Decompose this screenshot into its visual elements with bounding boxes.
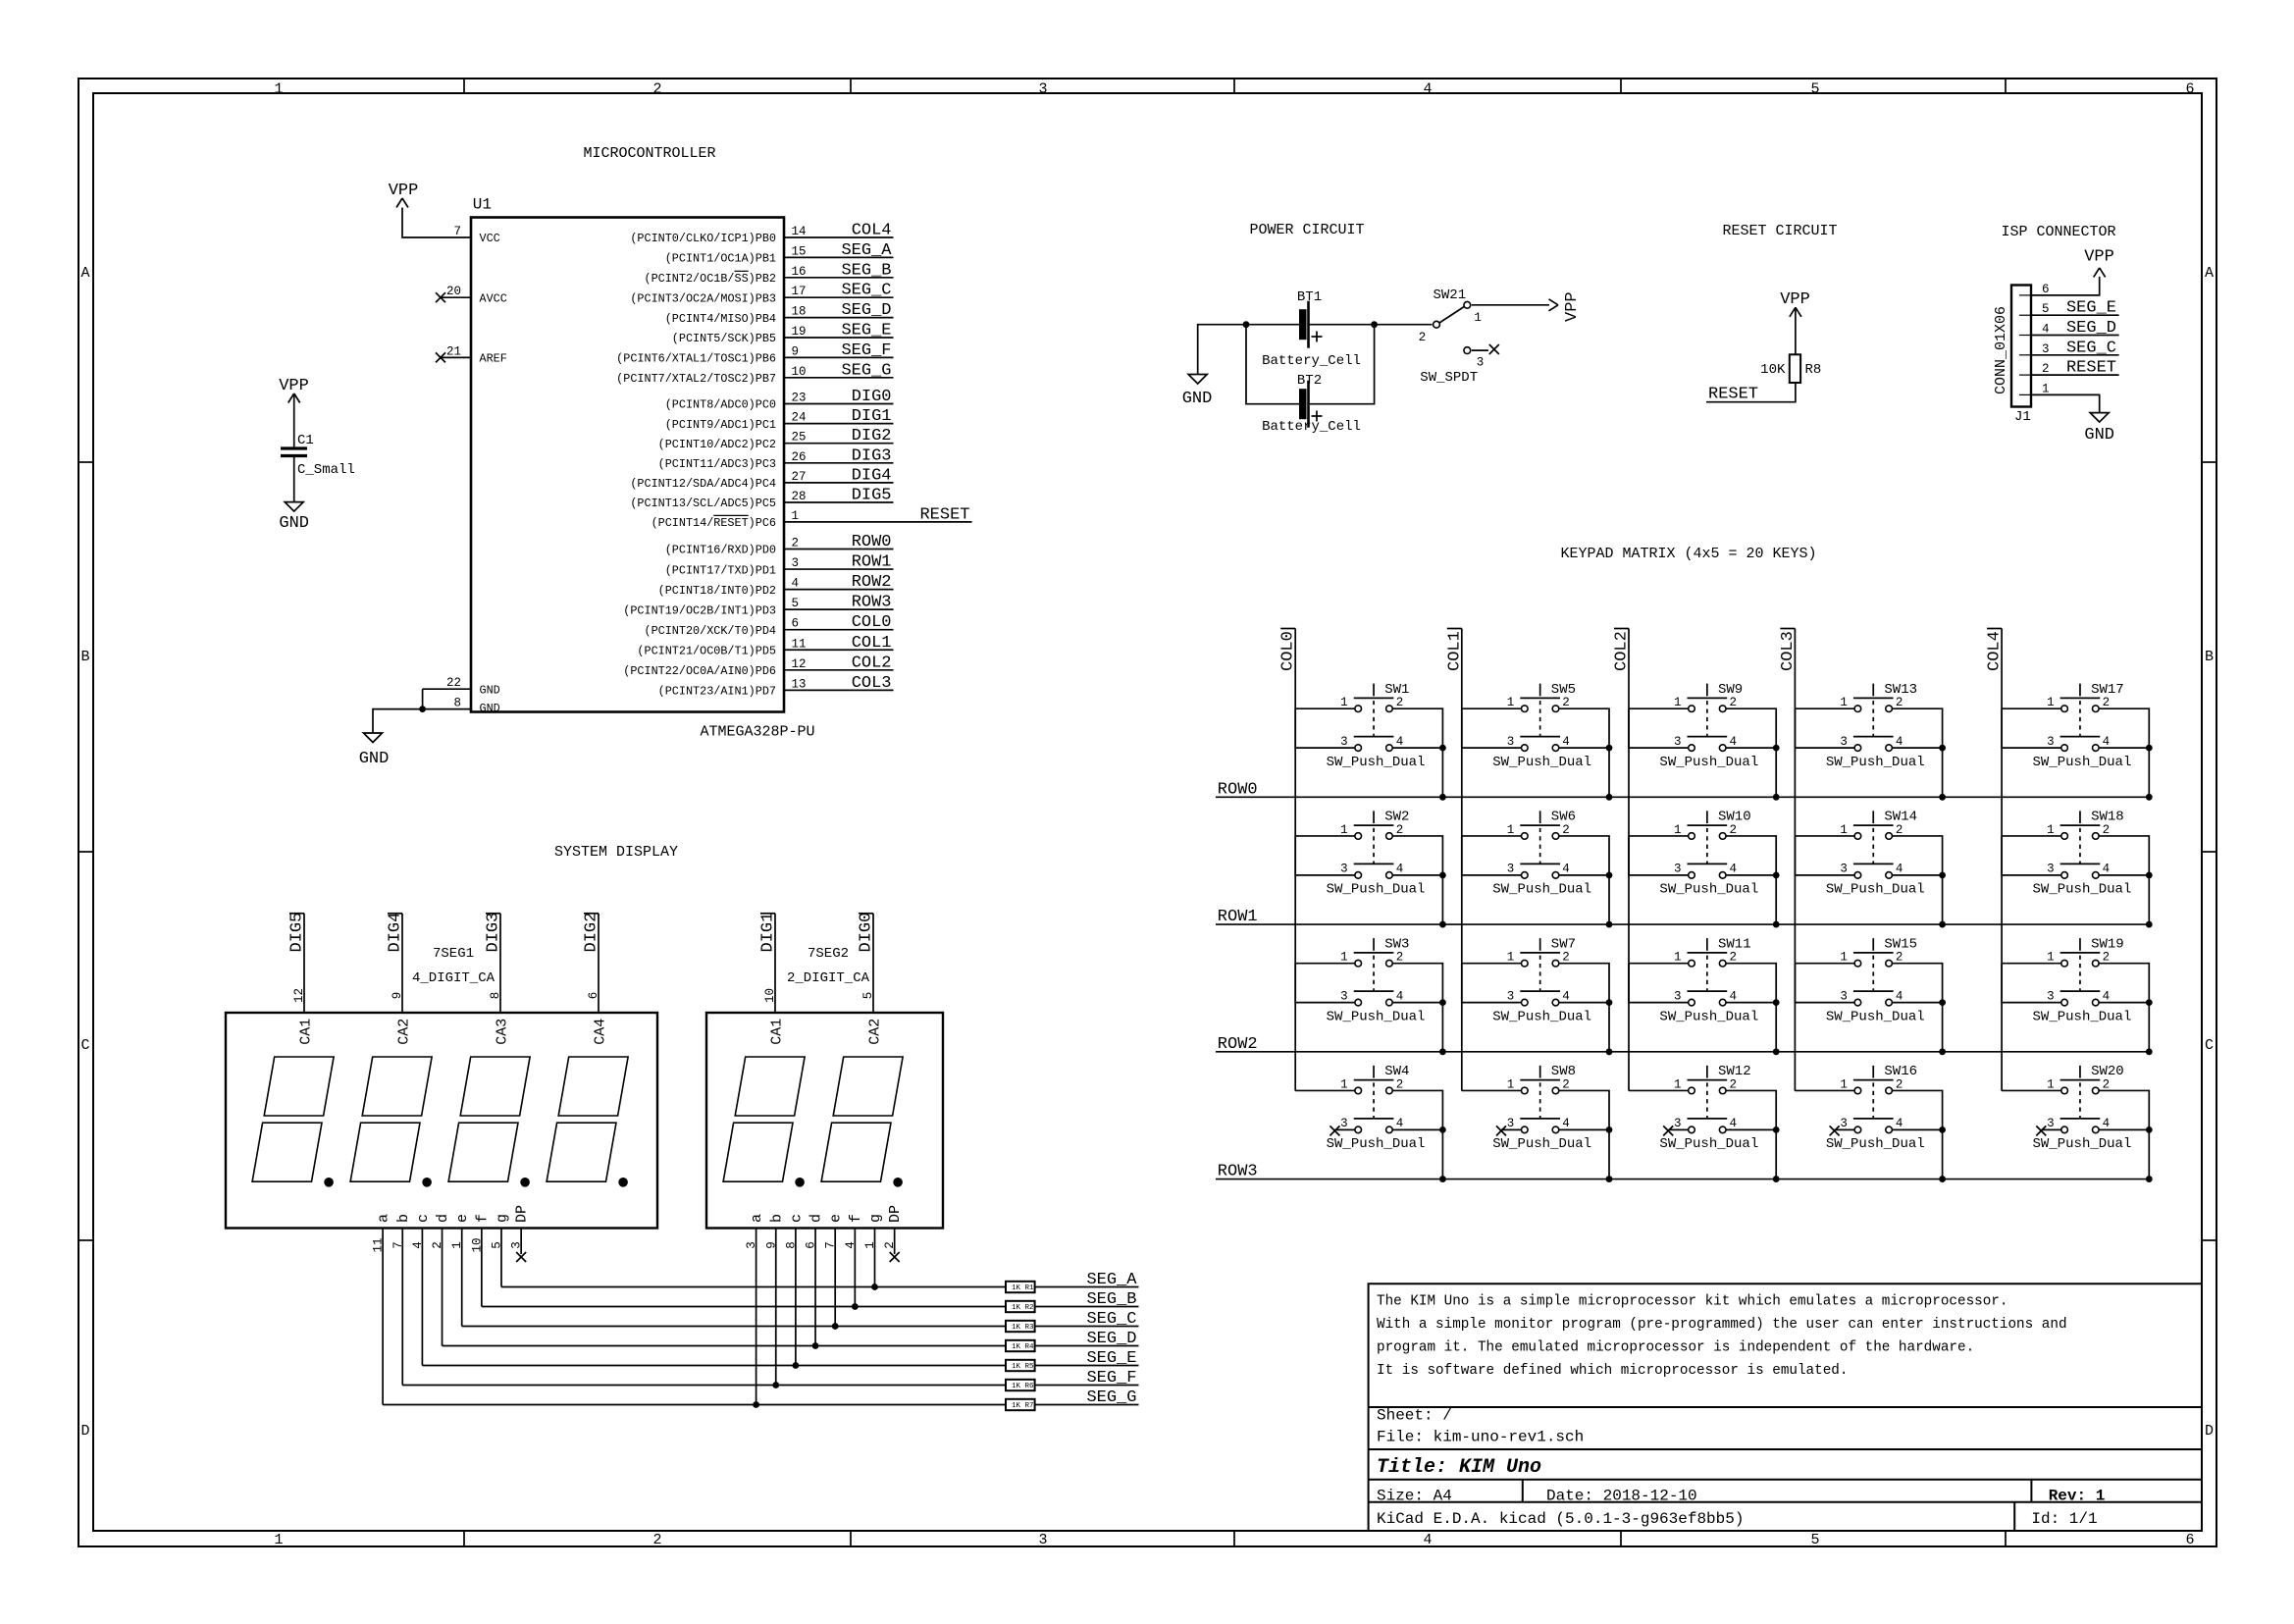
svg-text:3: 3 <box>1840 735 1848 749</box>
wire C1 to GND <box>293 456 295 502</box>
wire 7SEG1 pin b to SEG bus row <box>401 1229 403 1386</box>
svg-text:4: 4 <box>2103 989 2111 1003</box>
svg-text:b: b <box>768 1214 785 1223</box>
junction SW11 at ROW2 <box>1773 1048 1780 1055</box>
svg-text:1: 1 <box>1840 823 1848 837</box>
junction SW16 pin 4 <box>1939 1126 1946 1133</box>
svg-text:1: 1 <box>2047 696 2055 709</box>
7SEG1 digit 3 segments <box>460 1057 530 1116</box>
svg-text:(PCINT12/SDA/ADC4)PC4: (PCINT12/SDA/ADC4)PC4 <box>630 477 776 491</box>
svg-text:9: 9 <box>792 344 800 358</box>
junction 7SEG2 pin a <box>753 1401 759 1408</box>
wire SW19 pin 4 to junction <box>2099 1002 2149 1004</box>
svg-text:SW_Push_Dual: SW_Push_Dual <box>1492 1009 1591 1024</box>
wire COL1 to SW7 pin 1 <box>1462 963 1522 965</box>
svg-text:4: 4 <box>1730 989 1738 1003</box>
svg-text:3: 3 <box>1340 1117 1348 1130</box>
ground GND below U1 <box>364 733 383 743</box>
wire SW5 pin 2 down to row <box>1559 708 1609 797</box>
junction SW3 pin 4 <box>1439 999 1446 1006</box>
svg-text:2: 2 <box>1562 1077 1570 1091</box>
no-connect cross SW12 pin 3 <box>1668 1128 1689 1130</box>
pin 20 AVCC of U1 with no-connect cross <box>441 296 471 298</box>
frame row ticks right <box>2202 461 2216 463</box>
pin 19 (PB5) of U1 with wire and net label SEG_E <box>784 337 894 339</box>
wire SW12 pin 4 to junction <box>1726 1128 1776 1130</box>
svg-text:3: 3 <box>1507 989 1515 1003</box>
wire R8 to RESET net <box>1706 383 1796 402</box>
svg-text:ROW3: ROW3 <box>852 594 892 612</box>
svg-text:10K: 10K <box>1760 362 1786 378</box>
svg-text:SEG_E: SEG_E <box>841 322 891 341</box>
wire COL0 to SW4 pin 1 <box>1295 1089 1355 1091</box>
svg-text:2: 2 <box>1730 696 1738 709</box>
svg-text:(PCINT6/XTAL1/TOSC1)PB6: (PCINT6/XTAL1/TOSC1)PB6 <box>616 352 776 366</box>
power symbol VPP (reset circuit) <box>1790 307 1796 317</box>
ground GND (C1 branch) <box>285 502 303 511</box>
svg-text:CA3: CA3 <box>495 1019 511 1045</box>
power symbol VPP above U1 <box>396 198 402 208</box>
svg-text:2: 2 <box>1896 1077 1903 1091</box>
svg-text:SW18: SW18 <box>2091 810 2124 825</box>
pin 4 of J1 <box>2019 335 2031 337</box>
wire 7SEG2 pin g to SEG bus row <box>874 1228 876 1287</box>
wire SW10 pin 4 to junction <box>1726 874 1776 876</box>
svg-text:2: 2 <box>1896 696 1903 709</box>
svg-text:1: 1 <box>792 509 800 523</box>
svg-text:It is software defined which m: It is software defined which microproces… <box>1377 1363 1848 1379</box>
svg-text:CONN_01X06: CONN_01X06 <box>1993 306 2009 394</box>
svg-text:SW_Push_Dual: SW_Push_Dual <box>1327 755 1426 770</box>
svg-text:4: 4 <box>1896 1117 1903 1130</box>
junction 7SEG2 pin c <box>793 1362 800 1369</box>
svg-text:1: 1 <box>1507 1077 1515 1091</box>
wire COL0 to SW3 pin 3 <box>1295 964 1355 1003</box>
svg-text:DIG5: DIG5 <box>852 487 892 505</box>
svg-text:SW20: SW20 <box>2091 1064 2124 1079</box>
junction SW8 at ROW3 <box>1606 1176 1613 1182</box>
svg-text:12: 12 <box>292 988 306 1003</box>
svg-text:1: 1 <box>1674 951 1682 965</box>
svg-text:15: 15 <box>792 244 807 258</box>
pin 5 of J1 <box>2019 314 2031 316</box>
svg-text:The KIM Uno is a simple microp: The KIM Uno is a simple microprocessor k… <box>1377 1294 2007 1310</box>
junction SW5 at ROW0 <box>1606 794 1613 801</box>
wire BT2 left branch <box>1246 325 1299 404</box>
svg-text:SW_Push_Dual: SW_Push_Dual <box>1492 882 1591 898</box>
svg-text:g: g <box>495 1214 511 1223</box>
junction SW17 pin 4 <box>2146 745 2153 752</box>
svg-text:SEG_B: SEG_B <box>841 261 891 280</box>
svg-text:COL0: COL0 <box>852 613 892 632</box>
wire 7SEG2 pin f to SEG bus row <box>854 1228 856 1307</box>
wire SW6 pin 2 down to row <box>1559 836 1609 924</box>
svg-text:1: 1 <box>274 1532 283 1548</box>
svg-text:2: 2 <box>1396 951 1404 965</box>
svg-text:DIG3: DIG3 <box>485 913 503 953</box>
svg-text:DIG3: DIG3 <box>852 446 892 465</box>
wire COL1 to SW5 pin 1 <box>1462 707 1522 709</box>
svg-text:CA4: CA4 <box>593 1019 609 1045</box>
svg-text:g: g <box>867 1214 884 1223</box>
svg-text:5: 5 <box>861 992 875 1000</box>
capacitor C1 <box>281 446 307 449</box>
wire and net label SEG_D (J1 pin 4) <box>2031 335 2119 337</box>
power symbol VPP (power circuit, rotated right) <box>1549 299 1559 305</box>
svg-text:1: 1 <box>1840 1077 1848 1091</box>
svg-text:2: 2 <box>1562 951 1570 965</box>
wire COL3 to SW15 pin 3 <box>1795 964 1854 1003</box>
svg-text:GND: GND <box>480 702 500 715</box>
svg-text:10: 10 <box>792 365 807 379</box>
svg-text:Rev: 1: Rev: 1 <box>2049 1488 2106 1505</box>
svg-text:3: 3 <box>1507 735 1515 749</box>
svg-text:SW11: SW11 <box>1718 936 1751 952</box>
svg-text:SW16: SW16 <box>1884 1064 1917 1079</box>
svg-text:(PCINT4/MISO)PB4: (PCINT4/MISO)PB4 <box>665 312 776 326</box>
svg-text:SW_SPDT: SW_SPDT <box>1420 370 1478 386</box>
push-button switch SW5 SW_Push_Dual <box>1492 682 1591 770</box>
svg-text:5: 5 <box>2042 302 2050 316</box>
svg-text:Battery_Cell: Battery_Cell <box>1262 353 1361 369</box>
svg-text:SW7: SW7 <box>1551 936 1576 952</box>
wire SW11 pin 2 down to row <box>1726 964 1776 1052</box>
frame column ticks top <box>463 79 465 93</box>
wire SEG bus row SEG_D left of resistor <box>443 1345 1006 1347</box>
wire and net label SEG_B (resistor output) <box>1035 1306 1139 1308</box>
pin 27 (PC4) of U1 with wire and net label DIG4 <box>784 482 894 484</box>
microcontroller U1 ATMEGA328P-PU body <box>471 218 784 712</box>
svg-text:SEG_B: SEG_B <box>1086 1290 1136 1309</box>
wire SW3 pin 2 down to row <box>1392 964 1442 1052</box>
svg-text:e: e <box>828 1214 845 1223</box>
svg-text:2: 2 <box>2103 696 2111 709</box>
push-button switch SW15 SW_Push_Dual <box>1826 936 1925 1024</box>
power symbol VPP (ISP connector) <box>2094 268 2100 278</box>
wire SW7 pin 4 to junction <box>1559 1002 1609 1004</box>
wire COL0 to SW3 pin 1 <box>1295 963 1355 965</box>
svg-text:1: 1 <box>1840 696 1848 709</box>
wire COL0 to SW1 pin 3 <box>1295 708 1355 748</box>
svg-text:3: 3 <box>2047 989 2055 1003</box>
svg-text:3: 3 <box>1674 863 1682 876</box>
svg-text:GND: GND <box>279 514 309 533</box>
wire DIG net to 7SEG1 CA4 pin <box>598 914 600 1013</box>
wire and net label SEG_C (J1 pin 3) <box>2031 354 2119 356</box>
svg-text:(PCINT0/CLKO/ICP1)PB0: (PCINT0/CLKO/ICP1)PB0 <box>630 232 776 245</box>
svg-text:SW2: SW2 <box>1384 810 1409 825</box>
push-button switch SW16 SW_Push_Dual <box>1826 1064 1925 1152</box>
svg-text:COL1: COL1 <box>852 634 892 653</box>
junction SW16 at ROW3 <box>1939 1176 1946 1182</box>
frame row ticks left <box>78 461 93 463</box>
pin 5 (PD3) of U1 with wire and net label ROW3 <box>784 608 894 610</box>
push-button switch SW14 SW_Push_Dual <box>1826 810 1925 898</box>
svg-text:(PCINT20/XCK/T0)PD4: (PCINT20/XCK/T0)PD4 <box>644 624 776 638</box>
svg-text:4: 4 <box>1730 735 1738 749</box>
junction battery left <box>1243 321 1250 328</box>
svg-text:BT2: BT2 <box>1297 373 1322 389</box>
pin 2 of J1 <box>2019 374 2031 376</box>
wire BT2 right branch <box>1309 325 1375 404</box>
wire COL3 to SW16 pin 1 <box>1795 1089 1854 1091</box>
wire SEG bus row SEG_G left of resistor <box>383 1404 1006 1406</box>
junction 7SEG2 pin b <box>772 1382 779 1388</box>
svg-text:3: 3 <box>1674 989 1682 1003</box>
wire COL3 vertical bus <box>1794 629 1796 1091</box>
svg-text:3: 3 <box>792 556 800 570</box>
svg-text:SW_Push_Dual: SW_Push_Dual <box>2033 755 2132 770</box>
svg-text:SW3: SW3 <box>1384 936 1409 952</box>
pin 12 (PD6) of U1 with wire and net label COL2 <box>784 669 894 671</box>
wire SW6 pin 4 to junction <box>1559 874 1609 876</box>
ground GND (power circuit) <box>1188 375 1207 385</box>
svg-text:DIG5: DIG5 <box>288 913 307 953</box>
wire joining GND pins of U1 <box>422 689 424 708</box>
svg-text:ISP CONNECTOR: ISP CONNECTOR <box>2001 224 2115 240</box>
svg-text:SW_Push_Dual: SW_Push_Dual <box>1826 1136 1925 1152</box>
svg-text:VPP: VPP <box>389 182 419 200</box>
switch SW21 SW_SPDT <box>1434 321 1440 328</box>
svg-text:GND: GND <box>2084 426 2114 445</box>
wire COL3 to SW13 pin 1 <box>1795 707 1854 709</box>
pin 15 (PB1) of U1 with wire and net label SEG_A <box>784 256 894 258</box>
junction SW10 pin 4 <box>1773 871 1780 878</box>
svg-text:2: 2 <box>652 1532 661 1548</box>
svg-text:19: 19 <box>792 325 807 339</box>
svg-text:3: 3 <box>1840 863 1848 876</box>
pin 25 (PC2) of U1 with wire and net label DIG2 <box>784 443 894 445</box>
wire SEG bus row SEG_F left of resistor <box>402 1385 1006 1387</box>
svg-text:Date: 2018-12-10: Date: 2018-12-10 <box>1546 1488 1697 1505</box>
wire SW17 pin 4 to junction <box>2099 747 2149 749</box>
resistor R3 1K <box>1006 1321 1035 1332</box>
svg-text:2: 2 <box>1396 696 1404 709</box>
svg-text:DIG1: DIG1 <box>852 407 892 426</box>
junction SW13 at ROW0 <box>1939 794 1946 801</box>
svg-text:VPP: VPP <box>279 377 309 395</box>
junction SW15 pin 4 <box>1939 999 1946 1006</box>
svg-text:2: 2 <box>1730 823 1738 837</box>
svg-text:5: 5 <box>1810 81 1819 98</box>
svg-text:SEG_D: SEG_D <box>841 301 891 320</box>
wire COL1 to SW5 pin 3 <box>1462 708 1522 748</box>
svg-text:Size: A4: Size: A4 <box>1377 1488 1452 1505</box>
no-connect cross SW16 pin 3 <box>1835 1128 1855 1130</box>
resistor R6 1K <box>1006 1380 1035 1390</box>
svg-text:(PCINT22/OC0A/AIN0)PD6: (PCINT22/OC0A/AIN0)PD6 <box>623 664 776 678</box>
svg-text:1: 1 <box>1674 696 1682 709</box>
title block row separators <box>1369 1406 2202 1408</box>
wire SW8 pin 2 down to row <box>1559 1090 1609 1179</box>
wire SEG bus row SEG_E left of resistor <box>422 1365 1006 1367</box>
junction SW12 pin 4 <box>1773 1126 1780 1133</box>
svg-text:d: d <box>808 1214 825 1223</box>
svg-text:A: A <box>80 265 89 282</box>
wire SW15 pin 4 to junction <box>1892 1002 1942 1004</box>
svg-text:SW_Push_Dual: SW_Push_Dual <box>1659 755 1758 770</box>
svg-text:4: 4 <box>2103 863 2111 876</box>
wire COL0 vertical bus <box>1294 629 1296 1091</box>
svg-text:RESET: RESET <box>919 505 969 524</box>
svg-text:f: f <box>474 1214 491 1223</box>
svg-text:ROW2: ROW2 <box>852 573 892 592</box>
wire DIG net to 7SEG1 CA3 pin <box>499 914 501 1013</box>
svg-text:4: 4 <box>2103 1117 2111 1130</box>
battery BT1 <box>1299 309 1307 340</box>
svg-text:SW_Push_Dual: SW_Push_Dual <box>1492 1136 1591 1152</box>
junction SW14 at ROW1 <box>1939 921 1946 928</box>
svg-text:(PCINT5/SCK)PB5: (PCINT5/SCK)PB5 <box>672 332 776 345</box>
svg-text:SW17: SW17 <box>2091 682 2124 698</box>
wire ROW2 horizontal bus with net label <box>1216 1051 2149 1053</box>
svg-text:4: 4 <box>1423 1532 1432 1548</box>
svg-text:17: 17 <box>792 285 807 298</box>
resistor R7 1K <box>1006 1399 1035 1410</box>
svg-text:SW5: SW5 <box>1551 682 1576 698</box>
wire J1 pin 6 to VPP <box>2031 277 2100 295</box>
svg-text:c: c <box>788 1214 805 1223</box>
wire COL4 to SW18 pin 1 <box>2002 835 2061 837</box>
wire SW13 pin 2 down to row <box>1892 708 1942 797</box>
wire COL4 vertical bus <box>2001 629 2003 1091</box>
push-button switch SW8 SW_Push_Dual <box>1492 1064 1591 1152</box>
svg-text:(PCINT3/OC2A/MOSI)PB3: (PCINT3/OC2A/MOSI)PB3 <box>630 291 776 305</box>
wire and net label RESET (J1 pin 2) <box>2031 374 2119 376</box>
wire and net label SEG_G (resistor output) <box>1035 1404 1139 1406</box>
battery BT2 <box>1299 389 1307 419</box>
wire VPP to R8 <box>1795 307 1797 354</box>
svg-text:4: 4 <box>1730 863 1738 876</box>
svg-text:c: c <box>415 1214 432 1223</box>
pin 14 (PB0) of U1 with wire and net label COL4 <box>784 236 894 238</box>
junction SW13 pin 4 <box>1939 745 1946 752</box>
junction SW10 at ROW1 <box>1773 921 1780 928</box>
display 7SEG1 4_DIGIT_CA body <box>226 1013 657 1229</box>
7SEG2 digit 2 segments <box>833 1057 903 1116</box>
svg-text:a: a <box>376 1214 392 1223</box>
svg-text:(PCINT23/AIN1)PD7: (PCINT23/AIN1)PD7 <box>658 685 776 699</box>
wire COL3 to SW15 pin 1 <box>1795 963 1854 965</box>
svg-text:ROW1: ROW1 <box>1218 908 1258 926</box>
wire VPP to pin 7 VCC of U1 <box>402 208 471 238</box>
svg-text:4: 4 <box>1396 735 1404 749</box>
svg-text:SW_Push_Dual: SW_Push_Dual <box>1826 755 1925 770</box>
wire SW8 pin 4 to junction <box>1559 1128 1609 1130</box>
svg-text:(PCINT8/ADC0)PC0: (PCINT8/ADC0)PC0 <box>665 398 776 412</box>
pin 6 (PD4) of U1 with wire and net label COL0 <box>784 629 894 631</box>
push-button switch SW9 SW_Push_Dual <box>1659 682 1758 770</box>
svg-text:(PCINT16/RXD)PD0: (PCINT16/RXD)PD0 <box>665 544 776 557</box>
svg-text:d: d <box>435 1214 451 1223</box>
svg-text:ROW2: ROW2 <box>1218 1035 1258 1054</box>
svg-text:C_Small: C_Small <box>297 462 355 478</box>
svg-text:SW6: SW6 <box>1551 810 1576 825</box>
svg-text:SW_Push_Dual: SW_Push_Dual <box>2033 1009 2132 1024</box>
svg-text:11: 11 <box>792 637 807 651</box>
svg-text:CA2: CA2 <box>867 1019 884 1045</box>
svg-text:6: 6 <box>2185 81 2194 98</box>
svg-text:SW1: SW1 <box>1384 682 1409 698</box>
svg-text:3: 3 <box>1674 735 1682 749</box>
svg-text:SW_Push_Dual: SW_Push_Dual <box>2033 1136 2132 1152</box>
svg-text:8: 8 <box>453 697 461 710</box>
svg-text:RESET: RESET <box>2066 359 2116 378</box>
junction 7SEG2 pin f <box>852 1303 859 1310</box>
svg-text:(PCINT11/ADC3)PC3: (PCINT11/ADC3)PC3 <box>658 457 776 471</box>
svg-text:18: 18 <box>792 305 807 319</box>
svg-text:ROW1: ROW1 <box>852 553 892 572</box>
wire 7SEG1 pin e to SEG bus row <box>461 1229 463 1327</box>
wire COL0 to SW2 pin 1 <box>1295 835 1355 837</box>
junction SW5 pin 4 <box>1606 745 1613 752</box>
pin 2 (PD0) of U1 with wire and net label ROW0 <box>784 549 894 550</box>
svg-text:4: 4 <box>1896 735 1903 749</box>
wire COL2 to SW12 pin 1 <box>1629 1089 1689 1091</box>
svg-text:DIG4: DIG4 <box>852 466 892 485</box>
wire SW14 pin 2 down to row <box>1892 836 1942 924</box>
svg-text:4: 4 <box>1896 863 1903 876</box>
svg-text:File: kim-uno-rev1.sch: File: kim-uno-rev1.sch <box>1377 1429 1584 1446</box>
junction SW4 pin 4 <box>1439 1126 1446 1133</box>
svg-text:SW_Push_Dual: SW_Push_Dual <box>1659 1136 1758 1152</box>
svg-text:3: 3 <box>1477 356 1485 370</box>
wire and net label SEG_F (resistor output) <box>1035 1385 1139 1387</box>
svg-text:SW15: SW15 <box>1884 936 1917 952</box>
wire SW16 pin 2 down to row <box>1892 1090 1942 1179</box>
svg-text:27: 27 <box>792 470 807 484</box>
svg-text:14: 14 <box>792 225 807 238</box>
svg-text:28: 28 <box>792 490 807 503</box>
no-connect cross SW20 pin 3 <box>2041 1128 2061 1130</box>
svg-text:4: 4 <box>1562 989 1570 1003</box>
wire 7SEG2 pin d to SEG bus row <box>814 1228 816 1346</box>
svg-text:SW12: SW12 <box>1718 1064 1751 1079</box>
wire 7SEG1 pin d to SEG bus row <box>442 1229 443 1346</box>
junction SW1 at ROW0 <box>1439 794 1446 801</box>
junction SW4 at ROW3 <box>1439 1176 1446 1182</box>
junction SW20 pin 4 <box>2146 1126 2153 1133</box>
junction SW9 pin 4 <box>1773 745 1780 752</box>
svg-text:3: 3 <box>1840 989 1848 1003</box>
push-button switch SW6 SW_Push_Dual <box>1492 810 1591 898</box>
pin 16 (PB2) of U1 with wire and net label SEG_B <box>784 277 894 279</box>
svg-text:SW10: SW10 <box>1718 810 1751 825</box>
svg-text:SW_Push_Dual: SW_Push_Dual <box>2033 882 2132 898</box>
junction SW20 at ROW3 <box>2146 1176 2153 1182</box>
push-button switch SW4 SW_Push_Dual <box>1327 1064 1426 1152</box>
junction SW6 at ROW1 <box>1606 921 1613 928</box>
svg-text:SW9: SW9 <box>1718 682 1743 698</box>
svg-text:3: 3 <box>1507 1117 1515 1130</box>
junction SW3 at ROW2 <box>1439 1048 1446 1055</box>
wire COL0 to SW1 pin 1 <box>1295 707 1355 709</box>
no-connect cross SW4 pin 3 <box>1334 1128 1355 1130</box>
svg-text:2: 2 <box>1896 823 1903 837</box>
pin 22 GND of U1 <box>423 688 471 690</box>
svg-text:1: 1 <box>1674 823 1682 837</box>
svg-text:1: 1 <box>2047 951 2055 965</box>
svg-text:7SEG2: 7SEG2 <box>808 946 849 962</box>
svg-text:SEG_E: SEG_E <box>2066 299 2116 318</box>
pin 18 (PB4) of U1 with wire and net label SEG_D <box>784 317 894 319</box>
svg-text:SEG_F: SEG_F <box>1086 1369 1136 1388</box>
svg-text:J1: J1 <box>2014 409 2031 425</box>
svg-text:1: 1 <box>2047 1077 2055 1091</box>
push-button switch SW2 SW_Push_Dual <box>1327 810 1426 898</box>
wire SW1 pin 4 to junction <box>1392 747 1442 749</box>
wire COL2 to SW11 pin 1 <box>1629 963 1689 965</box>
